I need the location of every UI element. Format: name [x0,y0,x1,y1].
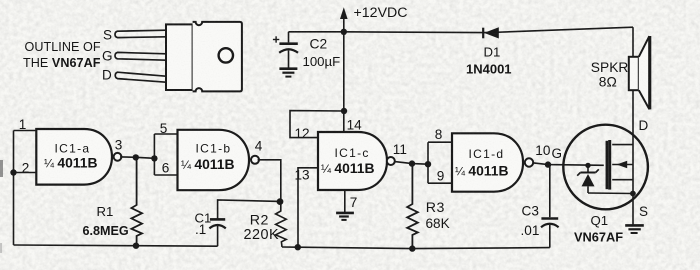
package tab hole [219,48,233,62]
package lead S [115,30,166,37]
wire IC1-c pin12 tie to V+ [290,111,344,138]
package lead G [115,52,166,60]
node pin12/pin14 junction dot [341,108,347,114]
wire IC1-c pin7 to ground [344,191,346,213]
wire IC1-a output to IC1-b inputs [120,157,154,158]
wire speaker top lead [632,27,634,57]
wire C3 top lead [549,165,551,218]
resistor R2 [276,202,287,247]
capacitor C2 [273,32,298,69]
wire IC1-c output to IC1-d inputs [395,162,428,165]
wire bottom rail right segment [282,247,550,249]
wire speaker to drain [632,90,634,225]
node zener-gate junction dot [585,163,590,168]
NAND gate IC1-d [452,133,533,191]
ground (Q1 source) [625,225,644,233]
speaker SPKR [629,36,650,109]
NAND gate IC1-b [178,130,260,190]
node IC1-d input junction dot [425,161,431,167]
package lead D [115,72,166,82]
node pin3 junction dot [133,154,139,160]
node IC1-b input junction dot [151,155,157,161]
wire C1 to R2 top link [218,200,280,219]
diode D1 [483,27,499,38]
node input junction dot [10,169,16,175]
node R1 bottom junction dot [133,243,139,249]
wire IC1-a pin1 [14,130,37,132]
node R2 top junction dot [277,198,284,205]
wire bottom rail left segment [14,245,218,246]
capacitor C3 [541,219,559,248]
wire IC1-d output to gate G [532,163,603,166]
transistor Q1 VN67AF (VMOS) [563,125,648,210]
wire IC1-a pin2 [14,172,37,174]
wire IC1-b input tie [154,134,177,175]
wire IC1-d input tie [428,142,452,183]
wire top rail V+ to D1 to speaker [289,27,634,32]
resistor R1 [131,158,142,246]
node V+ junction dot [341,29,347,35]
node source junction dot [630,191,636,197]
wire left input drop to bottom rail [13,131,15,246]
NAND gate IC1-a [36,129,121,185]
+12VDC supply arrow [340,7,348,132]
node G junction dot [545,161,551,167]
node pin13 rail junction dot [295,244,301,250]
TO-220 package outline drawing (VN67AF) [115,22,242,92]
node R3 bottom junction dot [409,245,415,251]
package tab with notches [193,22,242,92]
wire IC1-b output down to R2 top [258,160,281,202]
capacitor C1 [209,219,225,246]
ground (C2) [279,69,297,77]
scan smudge left edge [0,160,3,177]
package body [166,24,193,90]
wire IC1-c pin13 to bottom rail [298,168,318,247]
ground (IC1-c pin7) [336,213,354,220]
node R3 top junction dot [409,160,415,166]
NAND gate IC1-c [318,132,395,190]
resistor R3 [407,164,418,249]
caption OUTLINE OF THE VN67AF [23,40,101,70]
